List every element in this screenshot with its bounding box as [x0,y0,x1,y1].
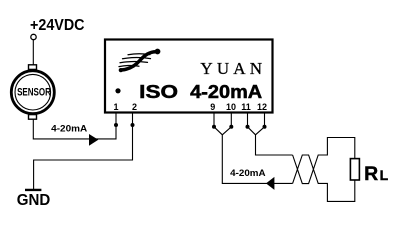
svg-text:11: 11 [241,102,251,112]
wire: terminal to sensor top [32,40,34,65]
svg-text:4-20mA: 4-20mA [190,82,262,102]
svg-text:R: R [364,163,378,185]
module U1 box (ISO 4-20mA isolator) [105,40,273,113]
svg-text:9: 9 [210,102,215,112]
pin 11 dot [246,125,250,129]
sensor top tab [29,65,37,70]
wire: pins 9,10 V-junction down then right (output low) [214,127,293,184]
svg-text:+24VDC: +24VDC [30,17,85,34]
bullet dot [115,88,120,93]
current direction arrow (left-pointing) on output wire [266,177,274,190]
twisted pair: wire A (top to loop top) [293,138,355,184]
svg-text:4-20mA: 4-20mA [51,124,87,135]
svg-text:12: 12 [257,102,267,112]
svg-text:SENSOR: SENSOR [17,86,51,98]
svg-text:GND: GND [17,192,51,209]
pin 9 dot [212,125,216,129]
svg-text:10: 10 [226,102,236,112]
wire: pin 2 down, left, down to GND [34,114,133,190]
svg-text:ISO: ISO [139,82,178,102]
sensor SENSOR (outer circle) [11,71,54,114]
sensor inner circle [15,74,51,110]
resistor RL body [350,159,359,180]
terminal +24VDC (open circle) [31,34,36,39]
svg-text:L: L [380,167,389,183]
current direction arrow (right-pointing) on input wire [89,134,98,146]
svg-text:1: 1 [113,102,118,112]
svg-text:4-20mA: 4-20mA [230,168,266,179]
pin 10 lead [230,114,232,127]
wire: pins 11,12 V-junction down then right (output high) [248,127,293,155]
pin 12 lead [264,114,266,127]
pin 10 dot [229,125,233,129]
node pin2 junction dot [131,123,135,127]
twisted pair: wire B (bottom to loop bottom) [293,155,355,201]
logo flourish (script f) [119,52,156,70]
sensor bottom tab [29,115,37,120]
pin 11 lead [247,114,249,127]
ground bar [25,189,41,191]
pin 9 lead [213,114,215,127]
node pin1 junction dot [114,123,118,127]
pin 12 dot [263,125,267,129]
wire: sensor bottom down and right to pin 1 [33,114,116,139]
svg-text:2: 2 [132,102,137,112]
